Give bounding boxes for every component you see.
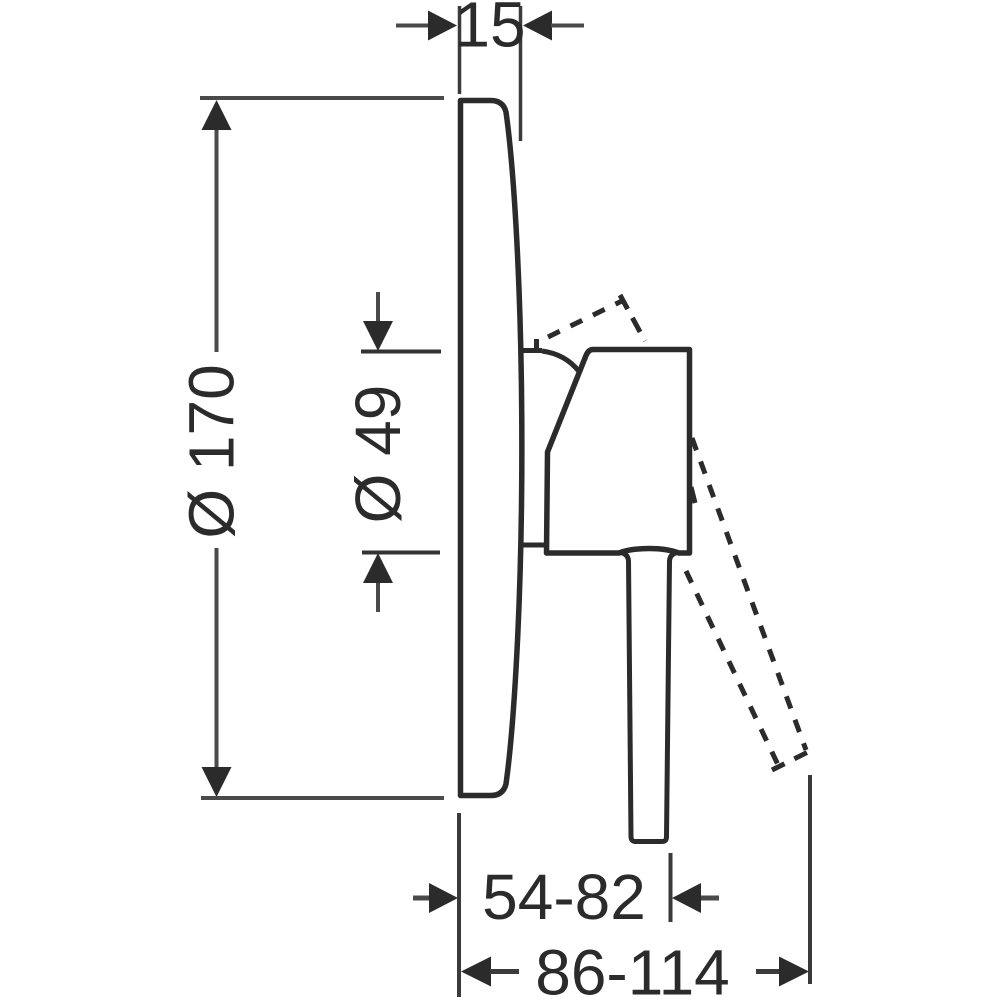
dim 49: top boundary line: [361, 350, 441, 354]
svg-text:54-82: 54-82: [482, 861, 646, 933]
dim 15: left extension line: [458, 6, 462, 94]
dim 170: top extension line: [200, 96, 444, 100]
dashed lever down-position end cap: [772, 751, 810, 770]
dim 86-114: left arrowhead: [461, 957, 491, 987]
cartridge top tick: [522, 348, 542, 353]
dim 49: top arrow tail: [376, 292, 380, 324]
escutcheon plate outline: [461, 101, 522, 796]
dashed lever up-position left edge: [548, 300, 624, 337]
bottom dims: right extension line: [808, 775, 812, 984]
dim 54-82: right tail line: [701, 896, 719, 901]
dim 170: dimension line upper segment: [215, 126, 219, 352]
dim 86-114: right line segment: [756, 969, 780, 974]
cartridge bottom tick: [521, 543, 546, 548]
lever arm: [620, 553, 678, 842]
dim 49: top arrowhead: [363, 321, 393, 351]
dim 86-114: right arrowhead: [779, 957, 809, 987]
dim 170: bottom extension line: [201, 796, 444, 800]
dim 15: left tail line: [396, 24, 429, 28]
svg-text:Ø 170: Ø 170: [176, 364, 248, 538]
handle body: [547, 350, 690, 554]
dim 15: right extension line: [519, 6, 523, 141]
dashed lever down-position stray dash: [691, 487, 695, 503]
dim 15: right arrowhead: [523, 11, 552, 41]
cartridge nub: [534, 339, 539, 350]
cartridge dome curve: [542, 351, 579, 372]
dim 170: dimension line lower segment: [215, 548, 219, 770]
svg-text:86-114: 86-114: [535, 937, 730, 1000]
dim 170: top arrowhead: [202, 100, 232, 130]
dashed lever up-position end cap: [620, 295, 645, 341]
dashed lever down-position right edge: [692, 438, 806, 750]
dim 49: bottom arrowhead: [363, 553, 393, 583]
bottom dims: middle extension line: [669, 853, 673, 922]
svg-text:15: 15: [454, 0, 525, 61]
dim 54-82: left arrowhead: [429, 883, 458, 913]
dim 54-82: left tail line: [413, 896, 431, 901]
bottom dims: left extension line: [457, 813, 461, 997]
dim 170: bottom arrowhead: [202, 767, 232, 797]
dashed lever down-position left edge: [686, 571, 780, 769]
dim 49: bottom boundary line: [362, 551, 440, 555]
dim 86-114: left line segment: [490, 969, 519, 974]
dim 49: bottom arrow tail: [376, 580, 380, 612]
svg-text:Ø 49: Ø 49: [342, 385, 414, 524]
dim 15: right tail line: [551, 24, 584, 28]
dim 54-82: right arrowhead: [672, 883, 701, 913]
dim 15: left arrowhead: [428, 11, 457, 41]
